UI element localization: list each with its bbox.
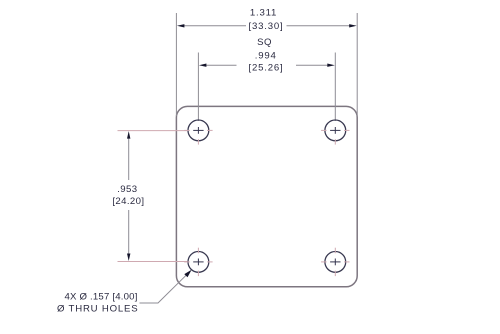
svg-text:SQ: SQ [257, 37, 272, 48]
extension line left (outer 1.311 dim) [175, 13, 177, 116]
extension line left (inner .994 dim) [197, 53, 199, 122]
svg-text:1.311: 1.311 [250, 8, 277, 19]
extension line bottom (left .953 dim) [118, 261, 189, 263]
hole top-right [325, 120, 346, 141]
center mark hole top-left [193, 129, 203, 131]
center mark hole bottom-left [193, 261, 203, 263]
hole bottom-right [325, 252, 346, 273]
center mark hole top-right [330, 129, 340, 131]
dimension line .953 [24.20] [128, 137, 130, 181]
hole bottom-left [188, 252, 209, 273]
hole top-left [188, 120, 209, 141]
svg-text:4X Ø .157 [4.00]: 4X Ø .157 [4.00] [65, 291, 138, 302]
leader line (hole callout) [140, 274, 188, 303]
svg-text:Ø THRU HOLES: Ø THRU HOLES [57, 304, 138, 315]
center mark hole bottom-right [330, 261, 340, 263]
leader arrowhead [184, 270, 191, 278]
dimension line 1.311 [33.30] SQ [183, 25, 247, 27]
extension line top (left .953 dim) [118, 130, 189, 132]
svg-text:[24.20]: [24.20] [112, 196, 144, 207]
svg-text:.994: .994 [255, 51, 277, 62]
extension line right (outer 1.311 dim) [356, 13, 358, 116]
svg-text:[33.30]: [33.30] [249, 21, 284, 32]
svg-text:[25.26]: [25.26] [249, 62, 284, 73]
extension line right (inner .994 dim) [334, 53, 336, 122]
plate outline (33.30 SQ flange) [176, 106, 357, 286]
dimension line .994 [25.26] [205, 64, 237, 66]
svg-text:.953: .953 [117, 184, 137, 195]
